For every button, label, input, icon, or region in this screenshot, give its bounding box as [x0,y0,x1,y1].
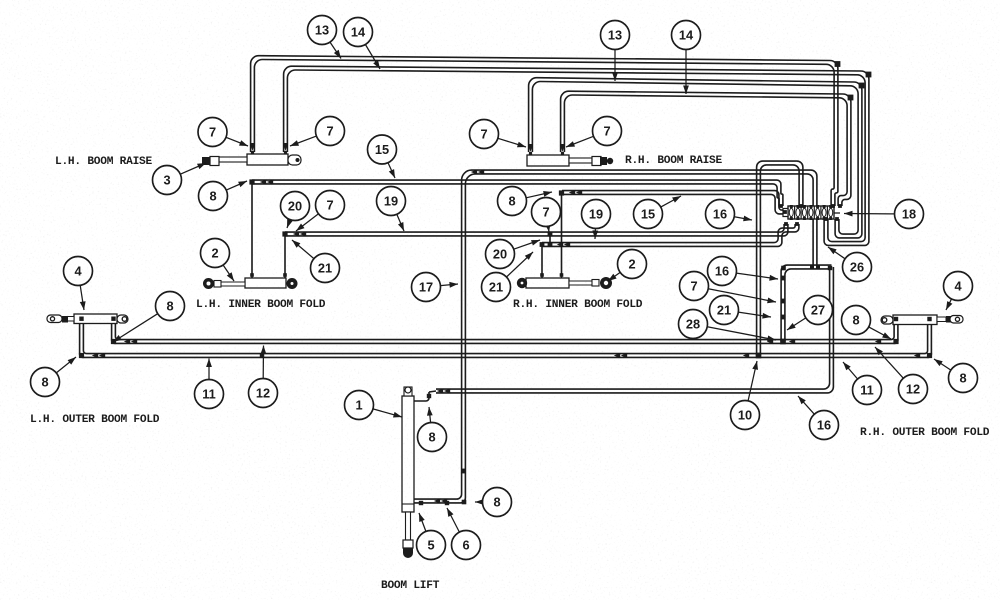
hose 15 R.H. (pair C) [562,191,785,214]
hose 13 R.H. (P3): R.H. raise port to valve [529,78,862,238]
boom lift top port link [414,392,429,401]
callout 20 [281,192,310,229]
callout 7 [296,191,345,232]
hose 17: boom lift riser and top run (pair A) [414,170,817,503]
hose 14 R.H. (P4): R.H. raise port to valve [561,91,851,206]
callout 4 [944,272,973,311]
label: R.H. BOOM RAISE [625,155,722,167]
cylinder: R.H. boom raise [527,144,613,166]
hose 12: upper outer-fold run [112,324,898,343]
hose couplers and junction fittings [79,61,932,505]
callout 8 [498,187,553,216]
cylinder: R.H. outer boom fold [881,315,963,325]
hose 11: lower outer-fold run [80,324,932,357]
label: R.H. OUTER BOOM FOLD [860,427,990,439]
hose 16 loop: right leg to boom lift run [436,267,833,393]
callout 14 [344,18,381,70]
cylinder: L.H. outer boom fold [47,314,128,324]
hose 13 L.H. (P1): L.H. raise port to valve [251,56,838,206]
riser: pair B to L.H. inner fold port [251,182,253,278]
callout 8 [842,306,892,340]
callout 5 [417,513,446,560]
label: L.H. OUTER BOOM FOLD [30,414,160,426]
hose 15 L.H. (pair B) [252,180,783,206]
cylinder: boom lift [402,387,414,558]
callout 19 [377,187,406,232]
callout 28 [679,310,777,342]
hose 14 L.H. (P2): L.H. raise port to valve [284,66,869,245]
callout 7 [680,272,777,304]
callout 27 [787,296,833,331]
callout 8 [199,181,248,211]
callout 16 [706,200,753,229]
callout 21 [292,240,340,283]
hose 19 (pair D) [285,224,788,236]
callout 10 [731,361,760,430]
riser: pair D to L.H. inner fold port [284,234,286,278]
cylinder: L.H. boom raise [202,143,301,166]
callout 15 [634,196,682,229]
callout 8 [934,359,978,393]
callout 17 [412,273,459,302]
callout 16 [798,396,839,440]
callout 7 [198,118,248,147]
callout 11 [843,362,882,405]
riser: pair E to R.H. inner fold port [541,245,543,279]
link pair D to pair E [549,234,551,245]
cylinder: R.H. inner boom fold [517,273,612,289]
callout 7 [470,120,527,149]
callout 13 [308,16,342,59]
callout 15 [368,135,397,178]
callout 14 [672,21,701,95]
boom lift top hose start jog [429,391,436,392]
callout 8 [31,357,77,397]
callout 6 [447,508,481,560]
callout 7 [532,198,561,233]
callout 3 [153,163,207,195]
label: BOOM LIFT [381,580,440,592]
callout 20 [486,240,541,269]
callout 13 [601,21,630,82]
callout 12 [249,346,278,408]
callout 11 [195,359,224,409]
label: L.H. BOOM RAISE [55,156,152,168]
hose 16 loop: top edge and left leg [781,265,831,341]
callout 4 [64,257,93,311]
callout 8 [475,488,512,517]
cylinder: L.H. inner boom fold [203,273,298,289]
callout 21 [482,252,534,302]
hose 19 R.H. (pair E) [542,224,799,246]
callout 2 [608,250,647,282]
riser: junction to R.H. inner fold port [561,193,563,278]
callout 12 [875,347,928,404]
hose 16: valve to lower run [757,161,803,355]
callout 16 [708,257,779,286]
label: L.H. INNER BOOM FOLD [196,299,326,311]
callout 19 [582,200,611,240]
callout 8 [418,407,447,452]
label: R.H. INNER BOOM FOLD [513,299,643,311]
callout 21 [710,296,772,325]
callout 2 [201,239,235,282]
callout 7 [566,117,622,148]
callout 7 [290,117,345,147]
callout 8 [113,292,185,343]
valve assembly (item 18) [783,205,840,220]
callout 1 [345,391,403,420]
callout 18 [844,200,924,229]
callout 26 [828,247,872,282]
